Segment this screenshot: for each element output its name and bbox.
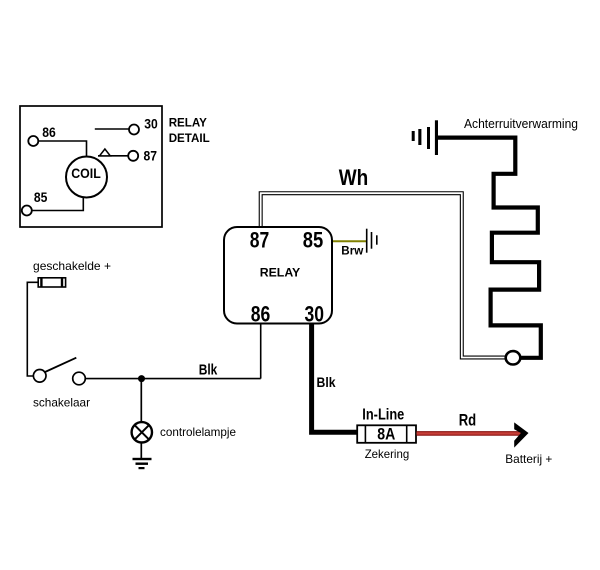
- svg-text:controlelampje: controlelampje: [160, 425, 236, 439]
- svg-text:Achterruitverwarming: Achterruitverwarming: [464, 116, 578, 131]
- svg-text:85: 85: [34, 190, 48, 205]
- svg-text:85: 85: [303, 228, 324, 253]
- svg-text:87: 87: [250, 228, 270, 253]
- svg-text:86: 86: [42, 125, 56, 140]
- svg-text:Blk: Blk: [199, 363, 218, 379]
- svg-text:Brw: Brw: [341, 245, 364, 258]
- svg-text:RELAY: RELAY: [260, 266, 301, 280]
- svg-text:86: 86: [251, 301, 271, 326]
- svg-text:Wh: Wh: [339, 165, 369, 190]
- svg-text:87: 87: [144, 148, 158, 163]
- svg-text:RELAY: RELAY: [169, 117, 207, 130]
- svg-text:30: 30: [144, 117, 158, 132]
- svg-text:Rd: Rd: [459, 410, 477, 429]
- svg-text:Batterij +: Batterij +: [505, 452, 552, 466]
- svg-text:In-Line: In-Line: [362, 406, 404, 423]
- svg-text:schakelaar: schakelaar: [33, 396, 90, 410]
- svg-text:geschakelde +: geschakelde +: [33, 259, 111, 273]
- svg-text:8A: 8A: [377, 425, 395, 443]
- svg-text:COIL: COIL: [71, 166, 101, 181]
- svg-text:30: 30: [304, 301, 324, 326]
- svg-text:DETAIL: DETAIL: [169, 132, 210, 145]
- svg-text:Blk: Blk: [317, 374, 336, 390]
- svg-text:Zekering: Zekering: [365, 447, 410, 461]
